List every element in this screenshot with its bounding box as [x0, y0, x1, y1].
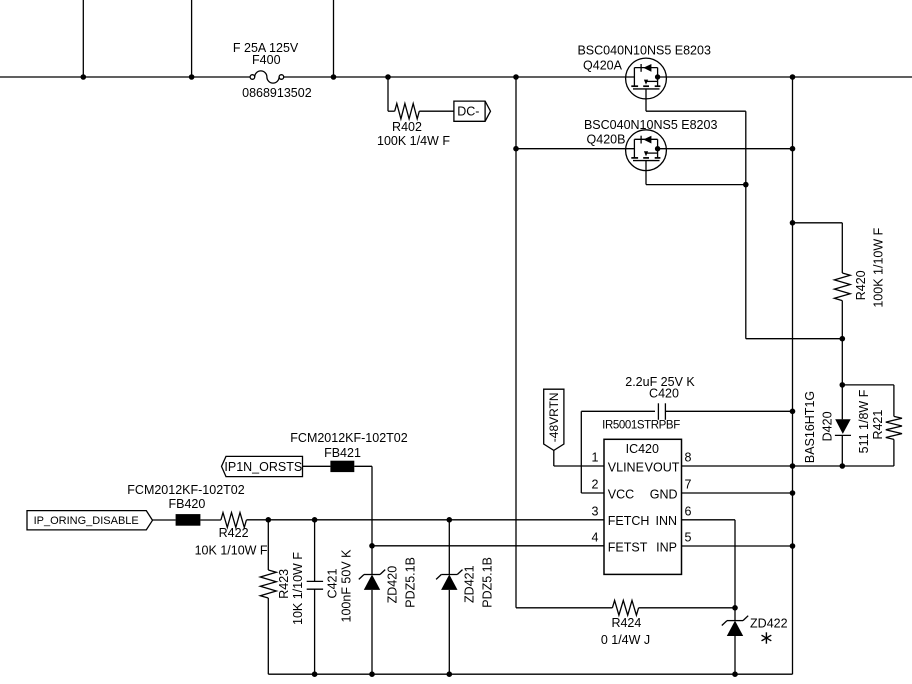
- svg-text:INP: INP: [656, 540, 677, 554]
- net flag IP_ORING_DISABLE: [27, 511, 153, 530]
- wire top stub 1: [82, 0, 84, 77]
- svg-text:F400: F400: [252, 53, 281, 67]
- svg-text:0868913502: 0868913502: [242, 86, 312, 100]
- wire FETCH pin 3 row: [246, 519, 604, 521]
- zener diode ZD422: [727, 620, 743, 622]
- junction R420 bottom / gate column: [840, 336, 846, 342]
- zener diode ZD420: [364, 574, 380, 576]
- wire R421 top loop: [842, 384, 894, 386]
- svg-text:BSC040N10NS5 E8203: BSC040N10NS5 E8203: [577, 44, 710, 58]
- wire main bus right segment: [658, 76, 912, 78]
- wire R421 bottom lead: [893, 439, 895, 466]
- junction FETCH / ZD421: [447, 517, 453, 523]
- wire INN down to R424 node: [734, 520, 736, 608]
- svg-text:FB420: FB420: [168, 497, 205, 511]
- wire R402 drop: [387, 77, 389, 111]
- wire bottom return bus: [268, 673, 792, 675]
- svg-text:ZD422: ZD422: [750, 617, 788, 631]
- junction main bus / stub 1: [81, 74, 87, 80]
- junction right vertical / R420 branch: [790, 220, 796, 226]
- junction main bus / R402 branch: [385, 74, 391, 80]
- wire left vertical to R424: [516, 607, 612, 609]
- svg-text:C421: C421: [325, 569, 339, 599]
- zener diode ZD421: [441, 574, 457, 576]
- junction D420 / R421 top: [840, 382, 846, 388]
- svg-text:FB421: FB421: [324, 446, 361, 460]
- op-amp / controller IC420 box: [604, 439, 682, 574]
- diode D420: [841, 385, 843, 419]
- net flag IP1N_ORSTS: [222, 456, 303, 476]
- svg-text:GND: GND: [650, 487, 678, 501]
- power flag -48VRTN: [544, 389, 564, 450]
- svg-text:8: 8: [685, 451, 692, 465]
- junction FETCH / R423: [266, 517, 272, 523]
- junction bottom bus / ZD421: [447, 671, 453, 677]
- wire ZD422 bottom lead: [734, 636, 736, 674]
- label ZD422 asterisk: [762, 632, 772, 643]
- junction D420 bottom / pin8 row: [840, 463, 846, 469]
- wire to R402: [388, 110, 395, 112]
- wire INP pin 5: [682, 545, 793, 547]
- junction Q420B wire / left vertical: [513, 146, 519, 152]
- wire GND pin 7: [682, 492, 793, 494]
- junction C420 / right vertical: [790, 409, 796, 415]
- capacitor C420: [657, 403, 659, 420]
- wire R420 to D420 top: [841, 339, 843, 385]
- svg-text:R424: R424: [611, 616, 641, 630]
- svg-text:10K 1/10W F: 10K 1/10W F: [195, 543, 268, 557]
- wire FB420 to R422: [200, 519, 221, 521]
- wire R423 top lead: [267, 520, 269, 570]
- wire C420 right lead: [665, 410, 792, 412]
- wire R423 bottom lead: [267, 598, 269, 674]
- capacitor C421: [307, 580, 323, 582]
- junction Q420B wire / right vertical: [790, 146, 796, 152]
- junction main bus / left vertical: [513, 74, 519, 80]
- svg-text:IP1N_ORSTS: IP1N_ORSTS: [224, 460, 302, 474]
- wire Q420B row left segment: [516, 148, 634, 150]
- svg-text:IR5001STRPBF: IR5001STRPBF: [602, 420, 680, 432]
- svg-text:VLINE: VLINE: [608, 460, 644, 474]
- wire C421 top lead: [314, 520, 316, 582]
- resistor R420: [834, 273, 850, 301]
- wire R420 top lead: [841, 223, 843, 273]
- svg-text:Q420A: Q420A: [583, 59, 623, 73]
- svg-text:ZD421: ZD421: [462, 565, 476, 603]
- svg-text:4: 4: [592, 531, 599, 545]
- svg-text:100K 1/4W F: 100K 1/4W F: [377, 134, 450, 148]
- wire C420 left lead: [581, 410, 655, 412]
- wire VCC pin 2: [581, 492, 604, 494]
- wire top stub 3: [333, 0, 335, 77]
- svg-text:IC420: IC420: [626, 442, 659, 456]
- wire Q420B row right segment: [658, 148, 793, 150]
- junction gate column / Q420B gate: [743, 182, 749, 188]
- ferrite bead FB420: [176, 514, 201, 526]
- wire -48VRTN to pin1: [553, 450, 555, 466]
- svg-text:FETCH: FETCH: [608, 514, 650, 528]
- wire ZD421 bottom lead: [448, 590, 450, 674]
- transistor Q420A (MOSFET): [626, 58, 667, 99]
- wire INN pin 6: [682, 519, 736, 521]
- junction bottom bus / ZD420: [369, 671, 375, 677]
- svg-text:Q420B: Q420B: [587, 133, 626, 147]
- wire IP1N_ORSTS to FB421: [303, 465, 331, 467]
- wire VLINE pin 1: [554, 465, 604, 467]
- wire R424 to ZD422 node: [639, 607, 735, 609]
- wire ZD420 column vertical: [371, 466, 373, 574]
- svg-text:DC-: DC-: [457, 105, 479, 119]
- wire C421 bottom lead: [314, 589, 316, 674]
- wire gate column to R420 bottom: [746, 338, 843, 340]
- wire Q420A gate lead down: [645, 89, 647, 111]
- transistor Q420B (MOSFET): [626, 130, 667, 171]
- resistor R422: [221, 513, 247, 528]
- wire main bus middle segment: [284, 76, 635, 78]
- junction FETST / ZD420 column: [369, 543, 375, 549]
- svg-text:BSC040N10NS5 E8203: BSC040N10NS5 E8203: [584, 118, 717, 132]
- junction pin8 row / right vertical: [790, 463, 796, 469]
- svg-text:R402: R402: [392, 120, 422, 134]
- resistor R424: [612, 600, 638, 615]
- fuse F400: [250, 75, 255, 80]
- junction R424 / INN / ZD422: [732, 605, 738, 611]
- svg-text:FETST: FETST: [608, 540, 648, 554]
- wire ZD421 top lead: [448, 520, 450, 575]
- junction pin5 / right vertical: [790, 543, 796, 549]
- svg-text:INN: INN: [655, 514, 677, 528]
- wire R420 bottom lead: [841, 301, 843, 339]
- off-page flag DC-: [454, 101, 491, 121]
- svg-text:R422: R422: [219, 526, 249, 540]
- svg-text:7: 7: [685, 478, 692, 492]
- wire R421 top lead: [893, 385, 895, 417]
- svg-text:R423: R423: [277, 569, 291, 599]
- svg-text:FCM2012KF-102T02: FCM2012KF-102T02: [127, 483, 244, 497]
- svg-text:-48VRTN: -48VRTN: [547, 392, 561, 442]
- svg-text:10K 1/10W F: 10K 1/10W F: [291, 552, 305, 625]
- junction main bus / stub 3: [331, 74, 337, 80]
- svg-text:PDZ5.1B: PDZ5.1B: [481, 557, 495, 608]
- resistor R423: [260, 570, 276, 598]
- junction main bus / stub 2: [189, 74, 195, 80]
- svg-text:PDZ5.1B: PDZ5.1B: [404, 557, 418, 608]
- resistor R402: [395, 104, 420, 119]
- ferrite bead FB421: [330, 461, 354, 472]
- svg-text:IP_ORING_DISABLE: IP_ORING_DISABLE: [34, 515, 139, 527]
- wire R402 to DC- flag: [419, 110, 454, 112]
- svg-text:0 1/4W J: 0 1/4W J: [601, 633, 650, 647]
- wire main -48V bus left segment: [0, 76, 250, 78]
- wire Q420A gate to right column: [646, 110, 746, 112]
- resistor R421: [886, 416, 902, 439]
- svg-text:1: 1: [592, 451, 599, 465]
- wire Q420B gate to column: [646, 184, 746, 186]
- wire FB421 to ZD420 column: [354, 465, 372, 467]
- svg-text:D420: D420: [821, 411, 835, 441]
- wire VOUT pin 8 row: [682, 465, 894, 467]
- svg-text:FCM2012KF-102T02: FCM2012KF-102T02: [290, 431, 407, 445]
- wire right vertical net: [792, 77, 794, 674]
- junction bottom bus / ZD422: [732, 671, 738, 677]
- svg-text:VCC: VCC: [608, 487, 634, 501]
- wire Q420B gate lead down: [645, 161, 647, 185]
- svg-text:5: 5: [685, 531, 692, 545]
- wire ZD422 top lead: [734, 608, 736, 621]
- svg-text:100K 1/10W F: 100K 1/10W F: [872, 227, 886, 307]
- junction bottom bus / C421: [312, 671, 318, 677]
- svg-text:R421: R421: [871, 410, 885, 440]
- wire ZD420 bottom lead: [371, 590, 373, 674]
- junction pin7 / right vertical: [790, 490, 796, 496]
- wire FETST pin 4 row: [372, 545, 604, 547]
- svg-text:R420: R420: [854, 270, 868, 300]
- wire top stub 2: [191, 0, 193, 77]
- wire gate column vertical: [745, 111, 747, 339]
- svg-text:BAS16HT1G: BAS16HT1G: [803, 391, 817, 463]
- svg-text:C420: C420: [649, 387, 679, 401]
- svg-text:ZD420: ZD420: [386, 566, 400, 604]
- wire right vertical to R420 top: [793, 222, 843, 224]
- junction FETCH / C421: [312, 517, 318, 523]
- wire flag to FB420: [153, 519, 176, 521]
- svg-text:6: 6: [685, 504, 692, 518]
- svg-text:3: 3: [592, 504, 599, 518]
- wire left vertical net (bus to R424): [515, 77, 517, 608]
- svg-text:511 1/8W F: 511 1/8W F: [857, 389, 871, 453]
- svg-text:2: 2: [592, 478, 599, 492]
- svg-text:100nF 50V K: 100nF 50V K: [339, 549, 353, 623]
- junction main bus / right vertical: [790, 74, 796, 80]
- wire C420 to VCC pin: [580, 411, 582, 493]
- svg-text:VOUT: VOUT: [645, 460, 680, 474]
